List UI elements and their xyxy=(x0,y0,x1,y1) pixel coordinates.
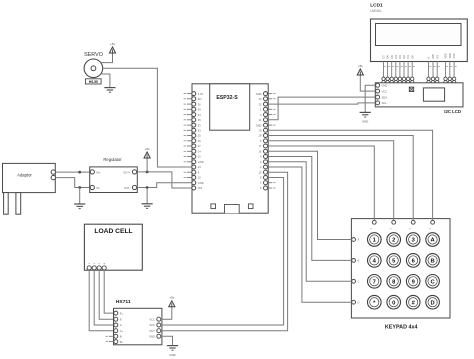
I2C LCD backpack module xyxy=(375,83,463,114)
svg-text:D1: D1 xyxy=(406,55,410,59)
wire load cell pin1 to HX711 A+ xyxy=(89,270,114,331)
svg-text:LCD1: LCD1 xyxy=(370,3,383,9)
svg-text:D4: D4 xyxy=(394,55,398,59)
wire keypad column 1 to ESP32 pin 17 xyxy=(268,146,375,220)
svg-text:VCC: VCC xyxy=(382,89,388,93)
wire I2C VCC xyxy=(360,75,375,91)
wire HX711 GND xyxy=(161,336,173,345)
keypad button 2 xyxy=(387,233,401,247)
svg-text:+5v: +5v xyxy=(169,296,174,300)
svg-text:VSS: VSS xyxy=(452,53,456,58)
wire load cell pin2 to HX711 A- xyxy=(94,270,114,325)
wire SDA: ESP32 pin 21 to I2C SDA xyxy=(268,97,376,120)
svg-text:D5: D5 xyxy=(390,55,394,59)
svg-text:ESP32-S: ESP32-S xyxy=(216,95,238,101)
ESP32 right pins xyxy=(256,92,276,191)
power +5V servo xyxy=(109,42,115,53)
keypad button D xyxy=(426,295,440,309)
keypad button 5 xyxy=(387,254,401,268)
svg-text:E: E xyxy=(427,57,431,59)
wire keypad column 2 to ESP32 pin 5 xyxy=(268,141,394,221)
svg-text:SCL: SCL xyxy=(382,101,388,105)
wire adaptor+ to regulator IN+ xyxy=(56,171,91,173)
svg-text:E-: E- xyxy=(120,317,123,321)
wire keypad column 3 to ESP32 pin 18 xyxy=(268,136,414,221)
svg-text:B+: B+ xyxy=(120,340,124,344)
adaptor (power plug) xyxy=(3,163,56,214)
keypad button # xyxy=(406,295,420,309)
svg-text:Regulator: Regulator xyxy=(103,157,122,162)
svg-text:0: 0 xyxy=(392,300,395,306)
keypad button B xyxy=(426,254,440,268)
keypad button 8 xyxy=(387,275,401,289)
svg-text:OUT-: OUT- xyxy=(124,186,130,190)
svg-text:HX711: HX711 xyxy=(116,299,131,305)
HX711 module xyxy=(106,299,162,345)
wire SCL: ESP32 pin 22 to I2C SCL xyxy=(268,103,376,104)
keypad button 4 xyxy=(368,254,382,268)
svg-text:2: 2 xyxy=(392,238,395,244)
wire servo signal to ESP32 pin 13 xyxy=(103,68,192,167)
power +5V I2C xyxy=(357,64,363,75)
svg-text:VCC: VCC xyxy=(149,317,155,321)
svg-text:HS-55: HS-55 xyxy=(89,80,98,84)
svg-text:+5v: +5v xyxy=(145,147,150,151)
wire keypad column 4 to ESP32 pin 19 xyxy=(268,130,433,220)
wire regulator OUT- to ESP32 GND xyxy=(137,183,192,188)
svg-text:IN+: IN+ xyxy=(97,170,102,174)
keypad button C xyxy=(426,275,440,289)
wire servo V+ xyxy=(100,53,112,63)
servo motor SERVO xyxy=(84,52,103,84)
ground servo xyxy=(104,88,115,93)
svg-text:+5v: +5v xyxy=(358,64,363,68)
junction OUT+ xyxy=(146,171,149,174)
keypad column terminals xyxy=(371,220,434,229)
svg-text:KEYPAD 4x4: KEYPAD 4x4 xyxy=(385,325,418,331)
ground HX711 xyxy=(167,346,178,351)
keypad row terminals xyxy=(352,238,360,305)
keypad button 0 xyxy=(387,295,401,309)
keypad 4x4 body xyxy=(351,219,450,331)
svg-text:D: D xyxy=(358,301,360,304)
terminal adaptor + xyxy=(51,170,55,174)
svg-text:OUT: OUT xyxy=(149,329,155,333)
keypad button 7 xyxy=(368,275,382,289)
wire keypad row A to ESP32 pin 16 xyxy=(268,151,352,239)
wire servo ground xyxy=(100,74,110,88)
svg-text:+5v: +5v xyxy=(110,42,115,46)
svg-text:VEE: VEE xyxy=(444,53,448,58)
svg-text:GND: GND xyxy=(169,353,175,357)
wire load cell pin3 to HX711 E- xyxy=(99,270,114,319)
power +5V regulator xyxy=(146,158,148,172)
wire load cell pin4 to HX711 E+ xyxy=(104,270,114,313)
svg-text:B-: B- xyxy=(120,335,123,339)
keypad button 6 xyxy=(406,254,420,268)
svg-text:LM016L: LM016L xyxy=(370,9,382,13)
wire HX711 SCK to ESP32 pin 8 xyxy=(161,178,284,326)
svg-text:SCK: SCK xyxy=(149,323,155,327)
keypad button 3 xyxy=(406,233,420,247)
keypad button A xyxy=(426,233,440,247)
wire keypad row D to ESP32 pin 2 xyxy=(268,167,352,302)
wire HX711 OUT to ESP32 pin 15 xyxy=(161,172,288,331)
wire adaptor- to regulator IN- xyxy=(56,178,91,188)
svg-text:GND: GND xyxy=(362,120,368,124)
junction adaptor- / ground xyxy=(78,186,81,189)
svg-text:GND: GND xyxy=(256,92,262,96)
svg-text:GND: GND xyxy=(382,84,388,88)
svg-text:GND: GND xyxy=(198,160,204,164)
svg-text:C: C xyxy=(358,280,360,283)
svg-text:D6: D6 xyxy=(386,55,390,59)
LCD display LCD1 LM016L xyxy=(370,3,467,62)
svg-text:SDA: SDA xyxy=(382,95,388,99)
wire HX711 VCC xyxy=(161,307,172,319)
svg-text:D: D xyxy=(431,300,435,306)
svg-text:D3: D3 xyxy=(398,55,402,59)
svg-text:B: B xyxy=(431,259,435,265)
svg-text:IN-: IN- xyxy=(97,186,101,190)
svg-text:D7: D7 xyxy=(382,55,386,59)
ESP32-S module U1 xyxy=(192,84,268,213)
svg-text:D2: D2 xyxy=(402,55,406,59)
terminal adaptor - xyxy=(51,175,55,179)
svg-text:OUT+: OUT+ xyxy=(123,170,130,174)
wire to ground (adaptor) xyxy=(79,188,81,205)
svg-text:I2C LCD: I2C LCD xyxy=(444,109,461,114)
svg-text:7: 7 xyxy=(373,279,376,285)
svg-text:3.3V: 3.3V xyxy=(198,92,204,96)
svg-text:EN: EN xyxy=(198,97,202,101)
svg-text:RW: RW xyxy=(431,54,435,59)
power +5V HX711 xyxy=(169,296,175,307)
svg-text:GND: GND xyxy=(198,181,204,185)
svg-text:E+: E+ xyxy=(120,311,124,315)
ground regulator xyxy=(142,204,153,209)
wire keypad row C to ESP32 pin 0 xyxy=(268,162,352,281)
ESP32 left pins xyxy=(184,92,204,191)
ground I2C xyxy=(360,112,371,117)
svg-text:Adaptor: Adaptor xyxy=(17,173,32,178)
junction OUT- / ground xyxy=(146,186,149,189)
wire I2C GND xyxy=(365,85,375,112)
load cell xyxy=(84,224,142,270)
svg-text:LOAD CELL: LOAD CELL xyxy=(94,228,132,235)
wire keypad row B to ESP32 pin 4 xyxy=(268,157,352,261)
wire regulator OUT+ to ESP32 VIN xyxy=(137,172,192,188)
svg-text:GND: GND xyxy=(149,335,155,339)
svg-text:VIN: VIN xyxy=(198,186,202,190)
svg-text:RS: RS xyxy=(435,55,439,59)
svg-text:VDD: VDD xyxy=(448,53,452,59)
wire to ground (regulator) xyxy=(146,188,148,204)
keypad button 9 xyxy=(406,275,420,289)
svg-text:D0: D0 xyxy=(410,55,414,59)
ground adaptor xyxy=(74,204,85,209)
keypad button * xyxy=(368,295,382,309)
regulator module xyxy=(90,157,138,193)
svg-text:A-: A- xyxy=(120,323,123,327)
keypad button 1 xyxy=(368,233,382,247)
junction adaptor+ xyxy=(78,171,81,174)
svg-text:SERVO: SERVO xyxy=(84,52,103,58)
LCD pin wires to I2C backpack xyxy=(382,62,457,84)
svg-text:A+: A+ xyxy=(120,329,124,333)
svg-text:GND: GND xyxy=(256,123,262,127)
